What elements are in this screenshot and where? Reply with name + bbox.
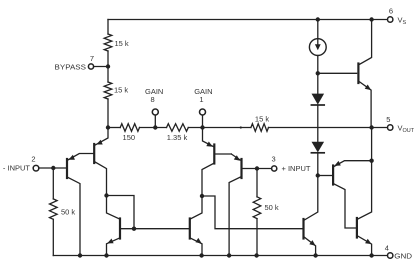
transistor Q6 (NPN current mirror output) <box>190 196 202 256</box>
node bypass junction <box>106 64 110 68</box>
node rail Q10 emitter <box>369 253 373 257</box>
node gain8 junction <box>153 125 157 129</box>
pin 5 VOUT terminal <box>388 125 393 130</box>
wire middle row left <box>108 127 120 129</box>
svg-text:+ INPUT: + INPUT <box>282 164 311 173</box>
wire output node vertical (Vout line to Q9 emitter) <box>371 128 373 161</box>
svg-text:- INPUT: - INPUT <box>3 163 31 172</box>
pin 1 GAIN terminal <box>200 109 206 115</box>
resistor R3 150 <box>120 124 139 132</box>
node D2 cathode / Q9 base / Q7 collector <box>316 173 320 177</box>
transistor Q5 (NPN current mirror, diode-connected) <box>107 196 190 256</box>
node rail Q5 emitter <box>104 253 108 257</box>
wire base line to Q8 <box>318 72 358 74</box>
node middle-left junction <box>106 125 110 129</box>
node rail Q1 collector <box>78 253 82 257</box>
resistor R4 1.35k <box>167 124 189 132</box>
wire 50k right top <box>256 169 258 197</box>
svg-text:15 k: 15 k <box>115 39 129 48</box>
svg-text:4: 4 <box>385 244 389 253</box>
node rail Q6 emitter <box>199 253 203 257</box>
transistor Q3 (PNP, +input) <box>229 154 241 256</box>
current source I1 <box>309 20 326 74</box>
node small junction on feedback wire <box>240 126 242 128</box>
wire gain8 drop <box>154 115 156 128</box>
transistor Q2 (PNP, -input darlington) <box>94 128 108 196</box>
pin 8 GAIN terminal <box>152 109 158 115</box>
node top rail current source tap <box>316 17 320 21</box>
svg-text:15 k: 15 k <box>114 85 128 94</box>
svg-text:8: 8 <box>151 95 155 104</box>
wire 50k left top <box>52 168 54 199</box>
node top rail Q8 collector <box>369 17 373 21</box>
svg-text:50 k: 50 k <box>265 203 279 212</box>
wire top rail <box>108 19 387 21</box>
svg-text:3: 3 <box>272 155 276 164</box>
node rail 50k right <box>254 253 258 257</box>
wire 50k right bottom <box>256 219 258 256</box>
node Q8 base / current source <box>316 71 320 75</box>
wire second stage: mirror output node to Q7 base <box>202 196 304 229</box>
diode D1 <box>311 73 324 142</box>
svg-text:VS: VS <box>398 16 407 27</box>
wire R3 to R4 <box>140 127 167 129</box>
resistor R1 15k <box>104 34 112 51</box>
node Q2/Q5 collector <box>104 193 108 197</box>
transistor Q4 (PNP, +input darlington) <box>202 128 231 197</box>
node vout line junction <box>369 125 373 129</box>
wire D2 cathode to Q9 base <box>318 175 332 177</box>
svg-text:2: 2 <box>31 154 35 163</box>
wire +input to Q3 base <box>242 168 271 170</box>
resistor R7 50k <box>253 197 261 219</box>
pin 7 BYPASS terminal <box>88 64 93 69</box>
resistor R6 50k <box>50 199 58 219</box>
wire bypass pin to vertical <box>94 66 108 68</box>
wire R5 to VOUT pin <box>269 127 388 129</box>
svg-text:1.35 k: 1.35 k <box>167 133 188 142</box>
node rail Q7 emitter <box>313 253 317 257</box>
svg-text:GND: GND <box>394 252 412 261</box>
node gain1 junction <box>200 125 204 129</box>
wire -input to Q1 base <box>39 167 67 169</box>
wire left vertical upper <box>107 20 109 35</box>
node mirror base tie <box>132 227 136 231</box>
wire gain1 drop <box>202 115 204 128</box>
wire bottom rail <box>53 255 387 257</box>
transistor Q1 (PNP, -input) <box>67 154 94 256</box>
node rail Q3 collector <box>227 253 231 257</box>
transistor Q8 (NPN output top) <box>358 20 371 128</box>
transistor Q10 (NPN output bottom) <box>357 161 372 256</box>
svg-text:VOUT: VOUT <box>398 124 415 135</box>
svg-text:50 k: 50 k <box>61 208 75 217</box>
svg-text:1: 1 <box>199 95 203 104</box>
node Q4/Q6 collector <box>200 194 204 198</box>
svg-text:6: 6 <box>389 7 393 16</box>
node -input 50k tap <box>51 166 55 170</box>
wire R4 to R5 <box>188 127 251 129</box>
diode D2 <box>311 153 324 176</box>
wire below R2 to middle node <box>107 99 109 128</box>
resistor R5 15k <box>251 124 269 132</box>
wire between 15k resistors <box>107 51 109 82</box>
node Q9 emitter / output <box>369 159 373 163</box>
svg-text:15 k: 15 k <box>255 115 269 124</box>
node +input 50k tap <box>255 166 259 170</box>
resistor R2 15k <box>104 82 112 99</box>
pin 4 GND terminal <box>388 253 393 258</box>
transistor Q9 (PNP output driver) <box>333 161 372 228</box>
svg-text:BYPASS: BYPASS <box>55 62 87 71</box>
pin 2 -INPUT terminal <box>33 165 39 171</box>
transistor Q7 (NPN gain stage) <box>304 176 318 256</box>
svg-text:150: 150 <box>123 133 136 142</box>
pin 6 VS terminal <box>388 17 393 22</box>
svg-text:7: 7 <box>90 54 94 63</box>
svg-text:5: 5 <box>386 115 390 124</box>
wire Q2/Q5 collector node to mirror base <box>107 196 135 229</box>
wire 50k left bottom <box>52 219 54 255</box>
pin 3 +INPUT terminal <box>272 166 277 171</box>
